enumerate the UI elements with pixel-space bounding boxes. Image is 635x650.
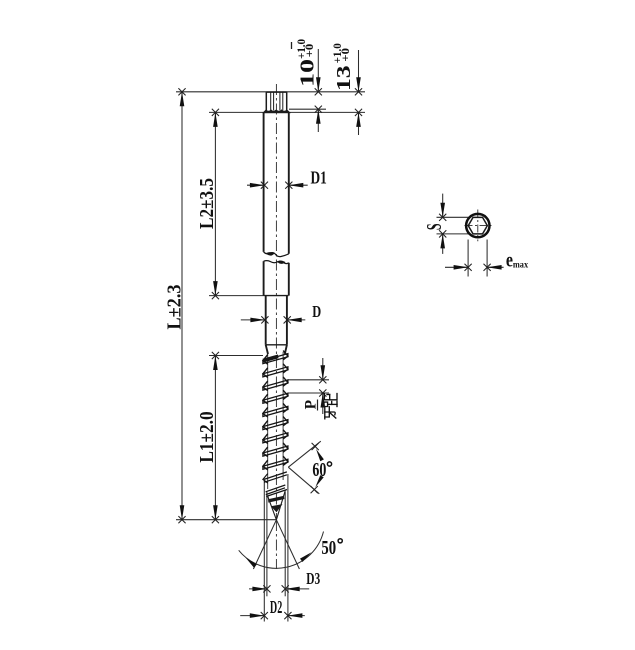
svg-text:10: 10 bbox=[296, 59, 319, 87]
svg-text:+0: +0 bbox=[339, 48, 352, 62]
svg-text:e: e bbox=[506, 249, 513, 271]
svg-text:max: max bbox=[513, 259, 529, 270]
svg-text:D2: D2 bbox=[270, 598, 282, 618]
svg-text:D3: D3 bbox=[306, 570, 320, 589]
svg-text:D1: D1 bbox=[311, 169, 327, 188]
svg-text:13: 13 bbox=[332, 65, 355, 91]
svg-text:60: 60 bbox=[312, 457, 326, 480]
svg-text:P: P bbox=[302, 399, 319, 409]
svg-text:D: D bbox=[312, 303, 321, 321]
svg-text:50: 50 bbox=[321, 536, 336, 559]
svg-text:L±2.3: L±2.3 bbox=[164, 284, 186, 329]
svg-text:L2±3.5: L2±3.5 bbox=[196, 178, 219, 229]
svg-text:L1±2.0: L1±2.0 bbox=[196, 411, 219, 462]
svg-text:+0: +0 bbox=[303, 44, 316, 58]
svg-text:S: S bbox=[423, 223, 446, 230]
